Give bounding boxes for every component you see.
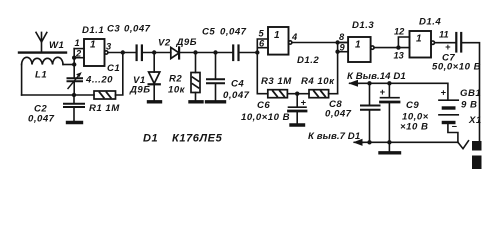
- wire pin4 to D1.3: [292, 42, 348, 44]
- svg-text:X1: X1: [468, 115, 482, 126]
- variable capacitor C1: [68, 65, 83, 96]
- label C9 10,0x10V: [400, 100, 429, 133]
- label K vyv.7 D1: [308, 131, 360, 142]
- capacitor C6 electrolytic: [289, 94, 307, 124]
- svg-text:9: 9: [340, 43, 346, 53]
- node C4 junction: [213, 50, 217, 54]
- pin number 8: [339, 32, 345, 42]
- op-amp U1 gate D1.1: [84, 39, 105, 66]
- label R1 1M: [89, 103, 120, 114]
- minus sign GB1: [452, 122, 458, 132]
- wire plus rail: [358, 83, 448, 99]
- wire pin 8 D1.3: [338, 42, 349, 44]
- wire pin10 to D1.4: [374, 47, 409, 49]
- label C8 0,047: [325, 99, 352, 120]
- wire tank bottom: [22, 94, 74, 96]
- pin number 12: [394, 27, 405, 37]
- capacitor C4: [207, 53, 224, 101]
- svg-text:C9: C9: [406, 100, 419, 111]
- wire pin 12 ladder: [398, 37, 409, 48]
- plus sign C9: [380, 87, 386, 97]
- svg-text:D1.1: D1.1: [82, 25, 104, 36]
- wire pin 1 D1.1: [74, 48, 84, 50]
- svg-text:13: 13: [394, 51, 405, 61]
- label R3 1M: [261, 76, 292, 87]
- pin number 11: [439, 30, 449, 40]
- svg-text:10к: 10к: [168, 85, 186, 96]
- node D1.2 input junction: [255, 50, 259, 54]
- pin number 1: [75, 38, 80, 48]
- resistor R4: [297, 90, 337, 98]
- label C4 0,047: [223, 79, 250, 102]
- ground C2: [68, 121, 82, 124]
- label C7 50,0x10V: [432, 53, 481, 73]
- node pin12 branch: [396, 45, 400, 49]
- wire pin 9 D1.3: [338, 51, 349, 53]
- pin number 4: [291, 32, 298, 42]
- capacitor C5: [233, 46, 238, 61]
- wire R1 vertical: [116, 53, 123, 96]
- svg-text:C5: C5: [202, 27, 215, 38]
- wire pin11 to C7: [435, 42, 456, 44]
- capacitor C9 electrolytic: [381, 83, 400, 142]
- label D1 K176LE5: [143, 133, 223, 145]
- ground V1: [149, 100, 161, 103]
- svg-text:8: 8: [339, 32, 345, 42]
- svg-text:D1.2: D1.2: [297, 55, 319, 66]
- capacitor C7 electrolytic: [456, 33, 461, 52]
- pin number 3: [106, 42, 112, 52]
- wire C7 to jack vertical: [462, 43, 479, 142]
- arrow to pin 14: [350, 81, 359, 87]
- label C3 0,047: [107, 24, 151, 35]
- wire R4 right vertical: [337, 43, 339, 94]
- wire input ladder D1.2: [257, 39, 268, 53]
- svg-text:4...20: 4...20: [85, 75, 113, 86]
- svg-text:+: +: [380, 87, 386, 97]
- capacitor C3: [137, 46, 142, 61]
- label K vyv.14 D1: [347, 71, 406, 82]
- svg-text:50,0×10 В: 50,0×10 В: [432, 62, 481, 73]
- node R2 junction: [193, 50, 197, 54]
- node pin9 tee: [335, 50, 339, 54]
- svg-text:Д9Б: Д9Б: [129, 85, 151, 96]
- label X1: [468, 115, 482, 126]
- label D1.2: [297, 55, 319, 66]
- svg-text:−: −: [452, 122, 458, 132]
- node stage2 feedback tee: [335, 40, 339, 44]
- svg-text:Д9Б: Д9Б: [176, 37, 198, 48]
- svg-text:3: 3: [106, 42, 112, 52]
- diode V2: [171, 47, 179, 58]
- node V1 junction: [152, 50, 156, 54]
- node pin2 tee: [72, 56, 76, 60]
- svg-text:0,047: 0,047: [28, 114, 55, 125]
- svg-text:C3: C3: [107, 24, 120, 35]
- label D1.4: [419, 17, 441, 28]
- node C8 top: [367, 81, 371, 85]
- node tank bottom junction: [72, 93, 76, 97]
- plus sign C6: [301, 98, 307, 108]
- plus sign GB1: [441, 88, 447, 98]
- svg-text:R4 10к: R4 10к: [301, 76, 335, 87]
- svg-text:+: +: [301, 98, 307, 108]
- pin number 9: [340, 43, 346, 53]
- wire coil top to node: [63, 64, 74, 66]
- svg-text:GB1: GB1: [460, 88, 481, 99]
- ferrite rod of magnetic antenna: [19, 51, 66, 53]
- svg-text:2: 2: [75, 49, 82, 59]
- svg-text:0,047: 0,047: [223, 90, 250, 101]
- wire pin 2 D1.1: [74, 57, 84, 59]
- gate symbol 1 of D1.1: [90, 40, 96, 51]
- svg-text:9 В: 9 В: [461, 100, 477, 111]
- svg-text:1: 1: [75, 38, 80, 48]
- gate D1.2: [268, 27, 289, 55]
- ground C4: [207, 100, 225, 103]
- svg-text:0,047: 0,047: [220, 27, 247, 38]
- gate D1.4: [410, 31, 432, 58]
- capacitor C8: [361, 83, 380, 142]
- wire battery minus path: [448, 124, 458, 142]
- svg-text:12: 12: [394, 27, 405, 37]
- node R1 feedback junction: [121, 50, 125, 54]
- wire V2 to C5: [179, 52, 232, 54]
- ground R2: [190, 100, 202, 103]
- gate symbol 1 of D1.4: [416, 34, 422, 45]
- svg-text:L1: L1: [35, 70, 47, 81]
- gate symbol 1 of D1.2: [274, 30, 280, 41]
- wire R3 left vertical: [257, 53, 268, 94]
- ground C6: [291, 123, 304, 126]
- arrow to pin 7: [354, 140, 363, 146]
- svg-text:10,0×10 В: 10,0×10 В: [241, 112, 290, 123]
- label W1: [49, 40, 64, 51]
- inversion bubble D1.1 pin 3: [105, 51, 108, 54]
- svg-text:×10 В: ×10 В: [400, 122, 428, 133]
- battery GB1: [439, 100, 458, 122]
- svg-text:К Выв.14 D1: К Выв.14 D1: [347, 71, 406, 82]
- wire input ladder vertical D1.1: [73, 49, 75, 65]
- label C2 0,047: [28, 104, 55, 125]
- svg-text:К выв.7 D1: К выв.7 D1: [308, 131, 360, 142]
- svg-text:К176ЛЕ5: К176ЛЕ5: [172, 133, 223, 145]
- node C9 bottom: [387, 140, 391, 144]
- wire pin3 to C3: [108, 52, 136, 54]
- plus sign C7: [445, 42, 451, 52]
- svg-text:6: 6: [259, 39, 265, 49]
- svg-text:1: 1: [355, 40, 361, 51]
- svg-text:D1.3: D1.3: [352, 20, 374, 31]
- label GB1 9V: [460, 88, 481, 111]
- node C9 top: [387, 81, 391, 85]
- label L1: [35, 70, 47, 81]
- svg-text:11: 11: [439, 30, 449, 40]
- svg-text:+: +: [445, 42, 451, 52]
- svg-text:5: 5: [259, 29, 265, 39]
- pin number 6: [259, 39, 265, 49]
- node R3 R4 C6 junction: [295, 92, 299, 96]
- svg-text:C4: C4: [231, 79, 244, 90]
- svg-text:R3 1М: R3 1М: [261, 76, 292, 87]
- inversion bubble D1.3 pin 10: [371, 46, 374, 49]
- gate symbol 1 of D1.3: [355, 40, 361, 51]
- svg-text:1: 1: [274, 30, 280, 41]
- pin number 13: [394, 51, 405, 61]
- antenna W1: [36, 32, 47, 51]
- svg-text:D1.4: D1.4: [419, 17, 441, 28]
- svg-text:1: 1: [416, 34, 422, 45]
- wire tank left vertical: [21, 65, 23, 96]
- label V1 Д9Б: [129, 75, 151, 96]
- inversion bubble D1.4 pin 11: [431, 41, 434, 44]
- resistor R1: [74, 91, 116, 99]
- node C8 bottom: [367, 140, 371, 144]
- svg-text:0,047: 0,047: [325, 109, 352, 120]
- svg-text:+: +: [441, 88, 447, 98]
- ground symbol main: [380, 142, 400, 153]
- label C5 0,047: [202, 27, 247, 38]
- wire minus rail: [363, 141, 458, 143]
- svg-text:R2: R2: [169, 74, 182, 85]
- node coil-top junction: [72, 62, 76, 66]
- inductor L1: [22, 57, 63, 64]
- wire C5 to node: [239, 52, 257, 54]
- svg-text:D1: D1: [143, 133, 158, 145]
- svg-text:W1: W1: [49, 40, 64, 51]
- svg-text:C6: C6: [257, 100, 270, 111]
- label R4 10k: [301, 76, 335, 87]
- inversion bubble D1.2 pin 4: [289, 41, 292, 44]
- svg-text:V2: V2: [158, 38, 171, 49]
- jack plug X1: [472, 141, 482, 169]
- svg-text:0,047: 0,047: [124, 24, 151, 35]
- svg-text:C1: C1: [107, 63, 120, 74]
- label C1 4...20: [85, 63, 120, 86]
- pin number 2: [75, 49, 82, 59]
- svg-text:1: 1: [90, 40, 96, 51]
- jack contact spring: [458, 141, 469, 149]
- gate D1.3: [348, 37, 371, 62]
- label D1.1: [82, 25, 104, 36]
- capacitor C2: [64, 95, 84, 121]
- diode V1: [149, 53, 160, 101]
- label V2 Д9Б: [158, 37, 197, 49]
- resistor R3: [268, 90, 297, 98]
- pin number 5: [259, 29, 265, 39]
- resistor R2: [191, 53, 200, 101]
- label C6 10,0x10V: [241, 100, 290, 123]
- label R2 10k: [168, 74, 186, 96]
- label D1.3: [352, 20, 374, 31]
- svg-text:4: 4: [291, 32, 298, 42]
- wire C3 to V2: [143, 52, 171, 54]
- svg-text:R1 1М: R1 1М: [89, 103, 120, 114]
